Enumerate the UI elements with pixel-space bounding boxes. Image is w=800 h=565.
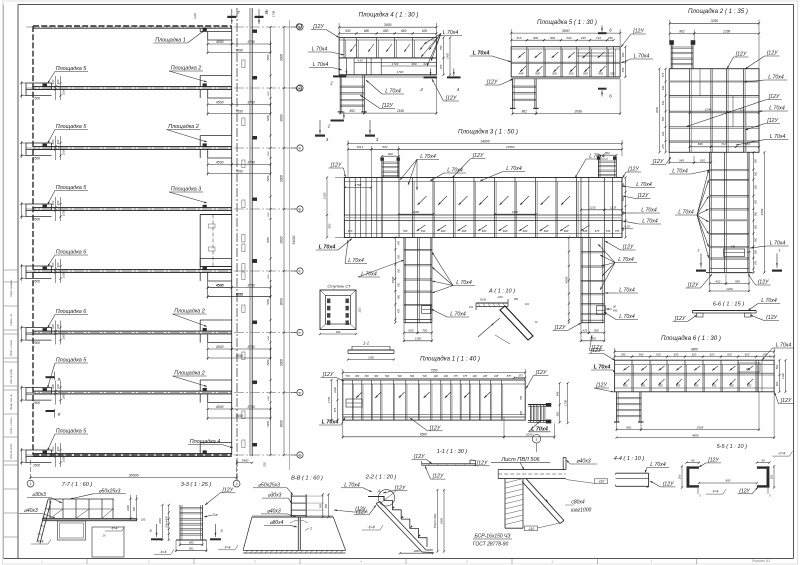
svg-text:530: 530 [421, 229, 426, 233]
svg-text:-t=4: -t=4 [778, 451, 786, 456]
svg-text:670: 670 [348, 229, 353, 233]
svg-text:7550: 7550 [430, 368, 437, 372]
svg-text:600: 600 [676, 383, 681, 387]
svg-text:800: 800 [594, 329, 599, 333]
svg-text:[12У: [12У [687, 283, 699, 289]
svg-text:-t=4: -t=4 [223, 544, 231, 549]
svg-text:L 70x4: L 70x4 [456, 280, 472, 286]
svg-text:400: 400 [444, 375, 449, 378]
svg-text:Площадка 5: Площадка 5 [56, 66, 88, 72]
svg-text:2: 2 [327, 124, 331, 129]
svg-text:470: 470 [398, 240, 401, 245]
svg-text:L 70x4: L 70x4 [385, 89, 401, 95]
svg-text:⌀40x3: ⌀40x3 [24, 508, 38, 514]
svg-text:(12У: (12У [758, 280, 769, 286]
svg-text:380: 380 [355, 375, 360, 378]
svg-text:600: 600 [755, 184, 758, 189]
svg-text:L 70x4: L 70x4 [619, 288, 635, 294]
svg-text:3400: 3400 [242, 459, 249, 463]
svg-text:700: 700 [398, 254, 401, 259]
svg-text:620: 620 [710, 352, 715, 356]
svg-text:375: 375 [661, 144, 665, 149]
svg-text:L 70x4: L 70x4 [594, 365, 611, 371]
svg-text:445: 445 [494, 375, 499, 378]
svg-text:Инв.№ дубл.: Инв.№ дубл. [9, 368, 13, 384]
svg-text:200: 200 [770, 474, 774, 480]
svg-text:645: 645 [583, 229, 588, 233]
svg-text:1000: 1000 [62, 148, 66, 155]
svg-text:Площадка 5: Площадка 5 [56, 358, 88, 364]
svg-text:[12У: [12У [707, 457, 719, 463]
svg-text:[12У: [12У [394, 485, 406, 491]
svg-text:432: 432 [715, 279, 720, 283]
svg-text:545: 545 [679, 158, 684, 162]
svg-text:L 70x4: L 70x4 [642, 219, 658, 225]
svg-text:(12У: (12У [739, 488, 750, 494]
svg-text:680: 680 [383, 29, 389, 33]
svg-text:L 70x4: L 70x4 [447, 168, 463, 174]
svg-text:600: 600 [408, 329, 413, 333]
svg-text:1: 1 [310, 527, 312, 531]
svg-text:5250: 5250 [266, 298, 270, 304]
svg-text:[12У: [12У [222, 487, 234, 493]
svg-text:7650: 7650 [235, 109, 243, 113]
svg-text:шаг1000: шаг1000 [571, 508, 592, 514]
svg-text:565: 565 [661, 116, 665, 121]
svg-text:640: 640 [661, 100, 665, 105]
svg-text:п: п [299, 146, 301, 150]
svg-text:2500: 2500 [32, 341, 40, 345]
svg-text:L 70x4: L 70x4 [770, 134, 786, 140]
svg-text:101: 101 [525, 303, 530, 306]
svg-text:Площадка 5: Площадка 5 [56, 429, 88, 435]
svg-text:4,10: 4,10 [357, 59, 363, 63]
svg-text:600: 600 [544, 229, 549, 233]
svg-text:860: 860 [726, 479, 731, 483]
svg-text:⌀40x3: ⌀40x3 [267, 508, 281, 514]
svg-text:6-6 ( 1 : 15 ): 6-6 ( 1 : 15 ) [713, 302, 745, 308]
svg-text:3750: 3750 [247, 405, 255, 409]
svg-text:755: 755 [520, 395, 523, 400]
svg-text:3750: 3750 [247, 160, 255, 164]
svg-text:500: 500 [755, 199, 758, 204]
svg-text:2500: 2500 [32, 280, 40, 284]
svg-text:675: 675 [333, 407, 337, 412]
svg-text:Площадка 5 ( 1 : 30 ): Площадка 5 ( 1 : 30 ) [537, 19, 597, 26]
svg-text:500: 500 [51, 446, 55, 451]
svg-text:235: 235 [263, 462, 267, 468]
svg-text:Площадка 6: Площадка 6 [56, 250, 87, 256]
svg-text:500: 500 [56, 139, 60, 144]
svg-text:630: 630 [422, 29, 428, 33]
svg-text:600: 600 [441, 229, 446, 233]
svg-text:500: 500 [385, 375, 390, 378]
svg-text:L 70x4: L 70x4 [312, 47, 328, 53]
svg-text:690: 690 [189, 541, 194, 545]
svg-text:500: 500 [755, 211, 758, 216]
svg-text:250: 250 [607, 36, 613, 40]
svg-text:1250: 1250 [268, 212, 270, 218]
svg-text:Площадка 2: Площадка 2 [174, 309, 205, 315]
svg-text:В: В [58, 412, 61, 417]
svg-text:-t=4: -t=4 [367, 525, 375, 530]
svg-text:5250: 5250 [266, 359, 270, 365]
svg-text:[12У: [12У [554, 325, 566, 331]
svg-text:L 70x4: L 70x4 [769, 106, 785, 112]
svg-text:90: 90 [762, 458, 766, 462]
svg-text:ф: ф [299, 453, 302, 457]
svg-text:[12У: [12У [768, 94, 780, 100]
svg-text:500: 500 [56, 200, 60, 205]
svg-text:4500: 4500 [216, 345, 224, 349]
svg-text:500: 500 [423, 375, 428, 378]
svg-text:[12У: [12У [595, 383, 607, 389]
svg-text:3600: 3600 [384, 23, 392, 27]
svg-text:(12У: (12У [767, 51, 778, 57]
svg-text:2050: 2050 [525, 433, 533, 437]
svg-text:600: 600 [622, 210, 625, 215]
svg-text:1248: 1248 [705, 108, 712, 112]
svg-text:1100: 1100 [193, 13, 197, 19]
svg-text:712: 712 [721, 142, 726, 146]
svg-text:852: 852 [189, 547, 194, 551]
svg-text:600: 600 [747, 383, 752, 387]
svg-text:500: 500 [775, 364, 779, 369]
svg-text:L 70x4: L 70x4 [450, 312, 466, 318]
svg-text:3250: 3250 [655, 106, 659, 113]
svg-text:[12У: [12У [381, 103, 393, 109]
svg-text:1235: 1235 [610, 205, 617, 209]
svg-text:500: 500 [51, 200, 55, 205]
svg-text:А: А [376, 489, 380, 494]
svg-text:Площадка 6 ( 1 : 30 ): Площадка 6 ( 1 : 30 ) [661, 335, 721, 342]
svg-text:7650: 7650 [235, 292, 243, 296]
svg-text:780: 780 [439, 45, 443, 50]
svg-text:500: 500 [51, 139, 55, 144]
svg-text:L 70x4: L 70x4 [443, 30, 459, 36]
svg-text:2298: 2298 [722, 29, 730, 33]
svg-text:L 70x4: L 70x4 [641, 208, 657, 214]
svg-text:L 70x4: L 70x4 [768, 75, 784, 81]
svg-text:600: 600 [658, 383, 663, 387]
svg-text:482: 482 [265, 9, 269, 14]
svg-text:9000: 9000 [280, 298, 284, 305]
svg-text:9000: 9000 [280, 114, 284, 121]
svg-text:14600: 14600 [480, 139, 490, 143]
svg-text:890: 890 [328, 223, 332, 228]
svg-text:500: 500 [755, 224, 758, 229]
svg-text:(12У: (12У [355, 507, 366, 513]
svg-text:L 70x4: L 70x4 [770, 241, 786, 247]
svg-text:300: 300 [133, 506, 136, 511]
svg-text:710: 710 [596, 36, 601, 40]
svg-text:В: В [58, 377, 61, 382]
svg-text:100: 100 [141, 518, 146, 522]
svg-text:755: 755 [615, 229, 620, 233]
svg-text:530: 530 [345, 29, 351, 33]
svg-text:4800: 4800 [692, 433, 699, 437]
svg-text:4500: 4500 [216, 160, 224, 164]
svg-text:1300: 1300 [415, 337, 422, 341]
svg-text:10583: 10583 [506, 145, 515, 149]
svg-text:Площадка 5: Площадка 5 [56, 185, 88, 191]
svg-text:335: 335 [610, 72, 615, 76]
svg-text:802: 802 [382, 145, 387, 149]
svg-text:Площадка 2: Площадка 2 [168, 124, 199, 130]
svg-text:600: 600 [564, 229, 569, 233]
svg-text:9000: 9000 [280, 54, 284, 61]
svg-text:у: у [299, 391, 301, 395]
svg-text:600: 600 [622, 226, 625, 231]
svg-text:790: 790 [403, 229, 408, 233]
svg-text:с80x4: с80x4 [571, 500, 585, 506]
svg-text:1250: 1250 [268, 274, 270, 280]
svg-text:500: 500 [533, 36, 538, 40]
svg-text:545: 545 [606, 229, 611, 233]
svg-text:Площадка 5: Площадка 5 [56, 124, 88, 130]
svg-text:500: 500 [535, 72, 540, 76]
svg-text:1700: 1700 [397, 70, 404, 74]
svg-text:380: 380 [365, 375, 370, 378]
svg-text:1250: 1250 [268, 151, 270, 157]
svg-text:L 70x4: L 70x4 [636, 182, 652, 188]
svg-text:г: г [536, 437, 538, 441]
svg-text:3750: 3750 [247, 283, 255, 287]
svg-text:2500: 2500 [32, 401, 40, 405]
svg-text:1125: 1125 [497, 296, 503, 299]
svg-text:[12У: [12У [632, 29, 644, 35]
svg-text:500: 500 [598, 72, 603, 76]
svg-text:L 70x4: L 70x4 [420, 154, 436, 160]
svg-text:L 70x4: L 70x4 [672, 169, 688, 175]
svg-text:1250: 1250 [268, 395, 270, 401]
svg-text:445: 445 [581, 36, 586, 40]
svg-text:[12У: [12У [590, 348, 602, 354]
svg-text:Площадка 1: Площадка 1 [155, 38, 186, 44]
svg-text:1-1: 1-1 [363, 341, 369, 346]
svg-text:500: 500 [552, 72, 557, 76]
svg-text:[12У: [12У [627, 167, 639, 173]
svg-text:2500: 2500 [32, 157, 40, 161]
svg-text:1000: 1000 [62, 333, 66, 340]
svg-text:3150: 3150 [323, 192, 327, 199]
svg-text:54000: 54000 [292, 235, 296, 244]
svg-text:Формат А1: Формат А1 [752, 559, 771, 563]
svg-text:600: 600 [462, 229, 467, 233]
svg-text:700: 700 [422, 329, 427, 333]
svg-text:Св: Св [213, 512, 218, 517]
svg-text:620: 620 [674, 352, 679, 356]
svg-text:3750: 3750 [247, 345, 255, 349]
svg-text:[12У: [12У [472, 153, 484, 159]
svg-text:500: 500 [755, 158, 758, 163]
svg-text:680: 680 [401, 29, 407, 33]
svg-text:Подп. и дата: Подп. и дата [9, 339, 13, 356]
svg-text:600: 600 [523, 229, 528, 233]
svg-text:[12У: [12У [535, 370, 547, 376]
svg-text:1210: 1210 [589, 205, 596, 209]
svg-text:430: 430 [613, 309, 618, 313]
svg-text:700: 700 [398, 268, 401, 273]
svg-text:500: 500 [568, 72, 573, 76]
svg-text:[12У: [12У [445, 96, 457, 102]
svg-text:L 70x4: L 70x4 [618, 257, 634, 263]
svg-text:L 70x4: L 70x4 [313, 62, 329, 68]
svg-text:590: 590 [398, 294, 401, 299]
svg-text:1: 1 [698, 249, 700, 253]
svg-text:960: 960 [411, 62, 416, 66]
svg-text:9000: 9000 [280, 420, 284, 427]
svg-text:862: 862 [522, 109, 528, 113]
svg-text:4500: 4500 [216, 40, 224, 44]
svg-text:820: 820 [700, 158, 705, 162]
svg-text:280: 280 [620, 352, 626, 356]
svg-text:500: 500 [583, 72, 588, 76]
svg-text:400: 400 [473, 375, 478, 378]
svg-text:с: с [299, 269, 301, 273]
svg-text:(12У: (12У [414, 454, 425, 460]
svg-text:500: 500 [325, 503, 328, 508]
svg-text:620: 620 [656, 352, 661, 356]
svg-text:700: 700 [398, 282, 401, 287]
svg-text:500: 500 [755, 249, 758, 254]
svg-text:Справ. №: Справ. № [9, 314, 13, 326]
svg-text:470: 470 [398, 308, 401, 313]
svg-text:[12У: [12У [322, 372, 334, 378]
svg-text:[12У: [12У [476, 460, 488, 466]
svg-text:L 70x4: L 70x4 [619, 314, 635, 320]
svg-text:7650: 7650 [235, 414, 243, 418]
svg-text:600: 600 [622, 182, 625, 187]
svg-text:-t=4: -t=4 [159, 549, 167, 554]
svg-text:Площадка 2 ( 1 : 35 ): Площадка 2 ( 1 : 35 ) [688, 8, 748, 15]
svg-text:[12У: [12У [330, 163, 342, 169]
svg-text:1000: 1000 [62, 455, 66, 462]
svg-text:515: 515 [516, 36, 521, 40]
svg-text:600: 600 [503, 229, 508, 233]
svg-text:р: р [299, 207, 301, 211]
svg-text:2198: 2198 [396, 109, 404, 113]
svg-text:445: 445 [483, 375, 488, 378]
svg-text:Ступень СТ: Ступень СТ [327, 284, 351, 289]
svg-text:680: 680 [364, 29, 370, 33]
svg-text:-110: -110 [598, 480, 605, 484]
svg-text:5250: 5250 [266, 420, 270, 426]
svg-text:802: 802 [605, 151, 610, 155]
svg-text:(12У: (12У [663, 481, 674, 487]
svg-text:[12У: [12У [780, 398, 792, 404]
svg-text:1250: 1250 [268, 335, 270, 341]
svg-text:350: 350 [439, 64, 443, 69]
svg-text:2500: 2500 [32, 464, 40, 468]
svg-text:1000: 1000 [62, 393, 66, 400]
svg-text:600: 600 [623, 383, 628, 387]
svg-text:Площадка 2: Площадка 2 [174, 371, 205, 377]
svg-text:640: 640 [661, 85, 665, 90]
svg-text:1212: 1212 [358, 307, 361, 313]
svg-text:-t=4: -t=4 [110, 526, 118, 531]
svg-text:1720: 1720 [392, 62, 399, 66]
svg-text:Подп. и дата: Подп. и дата [9, 417, 13, 434]
svg-text:L 70x4: L 70x4 [776, 343, 792, 349]
svg-text:2698: 2698 [574, 109, 582, 113]
svg-text:БСР-16х150 ЧЗ: БСР-16х150 ЧЗ [475, 533, 511, 539]
svg-text:4500: 4500 [216, 405, 224, 409]
svg-text:620: 620 [745, 352, 750, 356]
svg-text:3500: 3500 [562, 29, 570, 33]
svg-text:5250: 5250 [266, 54, 270, 60]
svg-text:400: 400 [434, 375, 439, 378]
svg-text:L 70x4: L 70x4 [589, 154, 605, 160]
svg-text:1060: 1060 [413, 549, 420, 553]
svg-text:L 70x4: L 70x4 [506, 166, 522, 172]
svg-text:448: 448 [731, 246, 736, 249]
svg-text:[12У: [12У [622, 245, 634, 251]
svg-text:4500: 4500 [216, 100, 224, 104]
svg-text:2-2 ( 1 : 20 ): 2-2 ( 1 : 20 ) [365, 474, 397, 480]
svg-text:600: 600 [622, 196, 625, 201]
svg-text:900: 900 [319, 503, 322, 508]
svg-text:L 70x4: L 70x4 [344, 482, 360, 488]
svg-text:7650: 7650 [235, 354, 243, 358]
svg-text:200x4=800: 200x4=800 [165, 516, 168, 529]
svg-text:600: 600 [712, 383, 717, 387]
svg-text:3750: 3750 [247, 40, 255, 44]
svg-text:[12У: [12У [432, 474, 444, 480]
svg-text:1: 1 [779, 249, 781, 253]
svg-text:-110: -110 [528, 527, 535, 531]
svg-text:802: 802 [388, 152, 393, 156]
svg-text:1738: 1738 [272, 10, 276, 17]
svg-text:2500: 2500 [32, 218, 40, 222]
svg-text:948: 948 [555, 391, 559, 396]
svg-text:⌀50x25x3: ⌀50x25x3 [258, 482, 280, 488]
svg-text:862: 862 [626, 425, 631, 429]
svg-text:696: 696 [698, 142, 703, 146]
svg-text:[12У: [12У [652, 159, 664, 165]
svg-text:7-7 ( 1 : 60 ): 7-7 ( 1 : 60 ) [62, 482, 93, 488]
svg-text:620: 620 [727, 352, 732, 356]
svg-text:500: 500 [410, 375, 415, 378]
svg-text:Взам. инв.№: Взам. инв.№ [9, 394, 13, 410]
svg-text:⌀80x4: ⌀80x4 [270, 520, 284, 526]
svg-text:L 70x4: L 70x4 [473, 51, 490, 57]
svg-text:375: 375 [518, 374, 523, 378]
svg-text:L 70x4: L 70x4 [650, 462, 666, 468]
svg-text:L 70x4: L 70x4 [678, 210, 694, 216]
svg-text:1290: 1290 [726, 287, 733, 291]
svg-text:4500: 4500 [760, 208, 764, 215]
svg-text:L 70x4: L 70x4 [319, 245, 336, 251]
svg-text:802: 802 [555, 411, 559, 416]
svg-text:862: 862 [350, 109, 356, 113]
svg-text:⌀40x3: ⌀40x3 [576, 459, 590, 465]
svg-text:3750: 3750 [247, 100, 255, 104]
svg-text:9000: 9000 [280, 175, 284, 182]
svg-text:[12У: [12У [766, 118, 778, 124]
svg-text:1813: 1813 [356, 145, 363, 149]
svg-text:500: 500 [755, 237, 758, 242]
svg-text:Площадка 4 ( 1 : 30 ): Площадка 4 ( 1 : 30 ) [359, 12, 419, 19]
svg-text:600: 600 [729, 383, 734, 387]
svg-text:600: 600 [775, 381, 779, 386]
svg-text:104: 104 [469, 306, 474, 309]
svg-text:3-3 ( 1 : 25 ): 3-3 ( 1 : 25 ) [181, 482, 212, 488]
svg-text:575: 575 [661, 72, 665, 77]
svg-text:1100: 1100 [781, 373, 785, 379]
svg-text:L 70x4: L 70x4 [322, 420, 339, 426]
svg-text:2: 2 [329, 81, 333, 86]
